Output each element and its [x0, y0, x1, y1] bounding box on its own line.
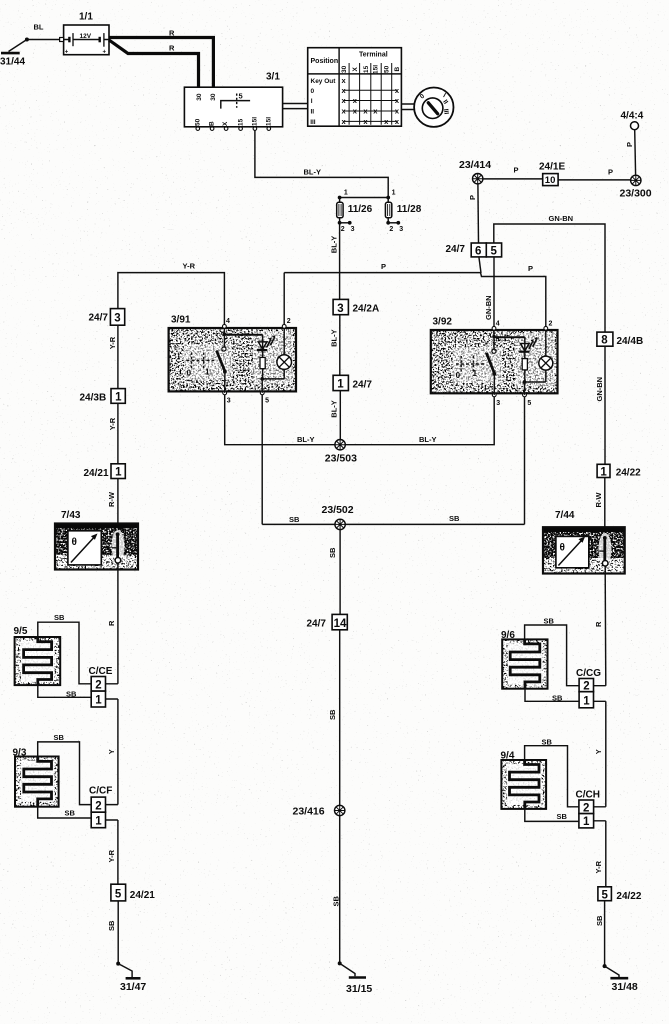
svg-text:4/4:4: 4/4:4: [621, 111, 644, 122]
3/91 pin 5 terminal: [260, 391, 264, 395]
svg-text:SB: SB: [66, 689, 77, 698]
svg-text:X: X: [222, 121, 229, 126]
svg-text:BL-Y: BL-Y: [329, 329, 338, 347]
svg-text:1/1: 1/1: [79, 12, 93, 23]
svg-text:31/15: 31/15: [346, 983, 372, 995]
splice 23/300: [620, 175, 652, 199]
wire Y-R to 24/3B: [108, 325, 118, 388]
svg-text:P: P: [625, 142, 634, 147]
svg-text:+: +: [103, 50, 107, 56]
svg-text:1: 1: [95, 816, 102, 828]
svg-text:R-W: R-W: [107, 491, 116, 507]
svg-text:P: P: [514, 166, 519, 175]
svg-text:θ: θ: [560, 542, 565, 553]
wire 3/91 pin5 to SB line: [261, 395, 263, 525]
svg-text:SB: SB: [107, 920, 116, 931]
svg-text:8: 8: [601, 335, 608, 347]
thermostat 7/44: [543, 510, 625, 574]
wire SB C/CF pin2 to heater 9/3: [38, 733, 91, 805]
wire R lower (battery to ignition 30): [109, 40, 199, 88]
3/92 series resistor: [522, 359, 527, 370]
3/92 pin 2 terminal: [544, 326, 548, 330]
wire SB to ground 31/48: [595, 901, 605, 966]
inline connector 24/1E: [539, 162, 565, 187]
svg-text:3/1: 3/1: [266, 72, 280, 83]
wire 3/92 pin3 to BL-Y line: [345, 397, 494, 445]
svg-text:2: 2: [341, 226, 345, 233]
svg-text:3/92: 3/92: [433, 317, 453, 328]
wire SB heater 9/4 to C/CH pin1: [525, 809, 579, 822]
svg-text:2: 2: [583, 681, 589, 693]
wire SB C/CE pin2 to heater 9/5: [38, 613, 91, 684]
svg-text:24/21: 24/21: [84, 468, 109, 479]
7/43 thermostat switch element: [116, 532, 120, 536]
3/92 pin 5 terminal: [523, 393, 527, 397]
wire BL-Y to splice 23/503: [329, 391, 340, 445]
svg-text:Y-R: Y-R: [594, 860, 603, 873]
svg-text:Key Out: Key Out: [311, 78, 337, 85]
svg-text:14: 14: [334, 618, 347, 630]
heated seat switch 3/91: [169, 314, 296, 404]
splice 23/414: [459, 159, 491, 184]
wire R 7/44 to C/CG pin2: [594, 574, 606, 686]
wire SB C/CG pin2 to heater 9/6: [525, 617, 580, 686]
svg-text:3: 3: [496, 400, 500, 407]
position/terminal table: [308, 48, 402, 127]
svg-text:50: 50: [384, 65, 391, 73]
svg-text:R: R: [169, 29, 175, 38]
svg-text:BL: BL: [34, 23, 44, 32]
svg-text:BL-Y: BL-Y: [329, 236, 338, 254]
3/91 switch contact: [222, 347, 226, 351]
svg-text:5: 5: [602, 889, 609, 901]
svg-text:SB: SB: [544, 617, 555, 626]
svg-text:2: 2: [549, 321, 553, 328]
svg-text:B: B: [209, 121, 216, 126]
svg-text:5: 5: [265, 398, 269, 405]
wire P 3/91 pin2 along to 3/92 pin2: [284, 257, 546, 327]
fuse link bar with node 1 / node 1: [338, 189, 396, 199]
7/44 temperature gauge symbol: [556, 536, 589, 567]
svg-text:BL-Y: BL-Y: [304, 168, 322, 177]
ground 31/48: [603, 964, 638, 993]
svg-text:2: 2: [95, 800, 101, 812]
svg-text:Y-R: Y-R: [107, 849, 116, 862]
svg-text:11/28: 11/28: [397, 204, 422, 215]
linkage table to key: [401, 104, 414, 110]
svg-text:15I: 15I: [252, 117, 259, 126]
wire SB heater 9/5 to C/CE pin1: [38, 685, 91, 698]
3/92 internal wire pin4 node: [493, 330, 495, 336]
svg-text:30: 30: [341, 65, 348, 73]
battery cells 12V: [64, 39, 109, 41]
svg-text:5: 5: [491, 246, 498, 258]
svg-text:θ: θ: [72, 537, 77, 548]
svg-text:3: 3: [227, 398, 231, 405]
svg-text:X: X: [352, 67, 359, 72]
svg-text:+: +: [65, 50, 69, 56]
7/44 thermostat switch element: [603, 536, 607, 540]
wire SB heater 9/6 to C/CG pin1: [525, 689, 579, 703]
svg-text:BL-Y: BL-Y: [419, 435, 437, 444]
svg-text:SB: SB: [449, 514, 460, 523]
svg-text:Terminal: Terminal: [359, 52, 388, 59]
svg-text:Y-R: Y-R: [108, 417, 117, 430]
wire R upper (battery to ignition 30): [109, 29, 213, 89]
svg-text:I: I: [311, 98, 313, 105]
svg-text:Position: Position: [311, 58, 339, 65]
wire Y C/CE pin1 to C/CF pin2: [107, 699, 118, 805]
linkage ignition to table: [283, 104, 308, 109]
splice 23/416: [293, 805, 345, 817]
3/91 indicator LED D1: [262, 335, 264, 342]
wire BL-Y fuse 11/26 down to 24/2A: [329, 223, 339, 300]
svg-text:SB: SB: [54, 613, 65, 622]
3/92 pin 3 terminal: [492, 393, 496, 397]
svg-text:30: 30: [210, 93, 217, 101]
fuse 11/28: [385, 198, 421, 234]
svg-text:6: 6: [475, 246, 481, 258]
ground 31/15: [338, 961, 373, 994]
3/91 series resistor: [260, 357, 265, 368]
3/91 illumination lamp: [277, 355, 292, 370]
svg-text:5: 5: [527, 400, 531, 407]
svg-text:2: 2: [389, 226, 393, 233]
svg-text:P: P: [528, 264, 533, 273]
svg-text:7/44: 7/44: [555, 510, 575, 521]
svg-text:1: 1: [473, 369, 478, 378]
svg-text:P: P: [608, 168, 613, 177]
svg-text:GN-BN: GN-BN: [595, 377, 604, 402]
svg-text:24/7: 24/7: [307, 618, 327, 629]
svg-text:0: 0: [311, 88, 315, 95]
3/92 junction node: [523, 380, 527, 384]
svg-text:15: 15: [363, 65, 370, 73]
svg-text:GN-BN: GN-BN: [484, 295, 493, 320]
fuse 11/26: [337, 198, 373, 234]
svg-text:23/502: 23/502: [322, 504, 354, 516]
wire P 23/414 down to 24/7 pin 6: [468, 184, 479, 243]
svg-text:SB: SB: [65, 809, 76, 818]
svg-text:P: P: [381, 262, 386, 271]
connector 4/4:4: [621, 111, 644, 176]
SB line 3/91 pin5 to 3/92 pin5 through splice 23/502: [262, 514, 524, 524]
7/43 temperature gauge symbol: [68, 531, 101, 565]
svg-text:1: 1: [392, 189, 396, 196]
connector 24/22 pin 5: [598, 887, 642, 902]
svg-text:SB: SB: [595, 915, 604, 926]
svg-text:3: 3: [337, 303, 343, 315]
svg-text:24/7: 24/7: [446, 244, 466, 255]
connector 24/21 pin 5: [111, 884, 155, 901]
svg-text:24/22: 24/22: [616, 891, 641, 902]
connector C/CF: [89, 785, 118, 827]
wire BL-Y ignition to fuses: [255, 130, 388, 197]
svg-text:1: 1: [115, 392, 122, 404]
3/92 pin 4 terminal: [492, 326, 496, 330]
svg-text:7/43: 7/43: [61, 510, 81, 521]
svg-text:0: 0: [187, 369, 192, 378]
svg-text:2: 2: [287, 318, 291, 325]
wire GN-BN 24/7 pin5 to 3/92 pin4: [484, 257, 494, 327]
svg-text:50: 50: [194, 118, 201, 126]
connector 24/22 pin 1: [597, 464, 641, 478]
connector 24/3B pin 1: [80, 389, 126, 404]
connector 24/7 pin 1: [333, 375, 372, 390]
svg-text:C/CE: C/CE: [89, 666, 113, 677]
wire GN-BN 24/4B to 24/22 pin1: [595, 346, 605, 464]
wire BL-Y to 24/7 pin1: [329, 315, 340, 376]
3/92 switch contact: [492, 349, 496, 353]
svg-text:Y-R: Y-R: [183, 261, 196, 270]
svg-text:10: 10: [545, 175, 556, 186]
ground 31/44: [0, 38, 29, 68]
svg-text:Y-R: Y-R: [108, 336, 117, 349]
svg-text:24/1E: 24/1E: [539, 162, 565, 173]
svg-text:24/7: 24/7: [353, 380, 373, 391]
svg-text:SB: SB: [54, 733, 65, 742]
wire GN-BN right column to 24/7 pin 5: [494, 214, 605, 332]
svg-text:Y: Y: [107, 749, 116, 754]
svg-text:2: 2: [583, 802, 589, 814]
svg-text:0: 0: [456, 371, 461, 380]
svg-text:R-W: R-W: [594, 492, 603, 508]
thermostat 7/43: [55, 510, 138, 569]
wire Y C/CG pin1 to C/CH pin2: [594, 701, 606, 807]
svg-text:C/CF: C/CF: [89, 785, 112, 796]
3/91 pin 4 terminal: [223, 325, 227, 329]
svg-text:1: 1: [583, 695, 590, 707]
3/92 switch blade: [486, 353, 494, 374]
wire P splice to 24/1E: [483, 166, 543, 179]
wire Y-R C/CH pin1 to 24/22 pin5: [594, 821, 606, 887]
connector 24/4B pin 8: [597, 332, 643, 347]
heater element 9/5: [14, 626, 61, 685]
wire Y-R C/CF pin1 to 24/21 pin5: [107, 820, 118, 884]
wire SB to splice 23/416: [328, 630, 340, 806]
svg-text:5: 5: [239, 91, 243, 100]
svg-text:11/26: 11/26: [348, 204, 373, 215]
svg-text:B: B: [394, 67, 401, 72]
wire SB to ground 31/15: [332, 816, 341, 964]
wire R-W to 7/43: [107, 479, 118, 535]
svg-text:BL-Y: BL-Y: [297, 435, 315, 444]
wire Y-R to 24/21: [108, 403, 118, 464]
svg-text:24/3B: 24/3B: [80, 392, 107, 403]
3/92 indicator LED D2: [524, 337, 526, 343]
svg-text:1: 1: [344, 189, 348, 196]
connector 24/21 pin 1: [84, 464, 126, 479]
splice 23/503: [297, 435, 437, 465]
svg-text:1: 1: [205, 367, 210, 376]
heater element 9/3: [13, 747, 59, 806]
wire SB to ground 31/47: [107, 901, 118, 964]
svg-text:24/22: 24/22: [616, 468, 641, 479]
svg-text:1: 1: [337, 379, 344, 391]
connector C/CE: [89, 666, 118, 707]
svg-text:24/7: 24/7: [89, 313, 109, 324]
connector 24/7 pin 3: [89, 309, 125, 326]
wire SB C/CH pin2 to heater 9/4: [525, 737, 579, 806]
svg-text:SB: SB: [552, 693, 563, 702]
svg-text:4: 4: [496, 321, 500, 328]
svg-text:23/300: 23/300: [620, 188, 652, 200]
svg-text:Y: Y: [594, 749, 603, 754]
3/92 position marks 0/1: [456, 363, 485, 365]
connector 24/2A pin 3: [333, 299, 379, 315]
svg-text:R: R: [594, 621, 603, 627]
key cylinder: [414, 88, 453, 127]
svg-text:4: 4: [226, 318, 230, 325]
svg-text:24/2A: 24/2A: [353, 304, 380, 315]
svg-text:31/44: 31/44: [0, 57, 25, 68]
svg-text:SB: SB: [328, 709, 337, 720]
svg-text:9/5: 9/5: [14, 626, 28, 637]
svg-text:3: 3: [351, 226, 355, 233]
svg-text:23/503: 23/503: [325, 452, 357, 464]
svg-text:15I: 15I: [266, 117, 273, 126]
svg-text:3: 3: [114, 313, 120, 325]
connector C/CH: [576, 789, 606, 828]
svg-text:SB: SB: [328, 547, 337, 558]
connector 24/7 pin 14: [307, 614, 348, 629]
connector C/CG: [576, 668, 606, 708]
svg-text:II: II: [311, 108, 315, 115]
battery 1/1: [60, 12, 109, 56]
wire R-W to 7/44: [594, 478, 605, 538]
3/91 pin 2 terminal: [282, 325, 286, 329]
svg-text:P: P: [468, 195, 477, 200]
3/91 position marks 0/1: [187, 359, 216, 361]
heated seat switch 3/92: [431, 317, 558, 407]
svg-text:23/416: 23/416: [293, 805, 325, 817]
svg-text:SB: SB: [542, 737, 553, 746]
svg-text:R: R: [107, 620, 116, 626]
svg-text:12V: 12V: [80, 33, 92, 40]
svg-text:24/21: 24/21: [130, 890, 155, 901]
svg-text:BL-Y: BL-Y: [329, 400, 338, 418]
svg-text:3/91: 3/91: [171, 314, 191, 325]
svg-text:23/414: 23/414: [459, 159, 491, 171]
wire BL battery to ground: [27, 23, 60, 40]
3/91 switch blade: [217, 351, 226, 372]
wire Y-R top left to 3/91 pin4: [118, 261, 224, 325]
heater element 9/6: [501, 630, 548, 689]
svg-text:SB: SB: [289, 515, 300, 524]
svg-text:3: 3: [399, 226, 403, 233]
splice 23/502: [322, 504, 354, 530]
svg-text:C/CG: C/CG: [576, 668, 601, 679]
svg-text:1: 1: [115, 467, 122, 479]
svg-text:GN-BN: GN-BN: [549, 214, 574, 223]
wire SB heater 9/3 to C/CF pin1: [38, 807, 91, 818]
svg-text:30: 30: [196, 93, 203, 101]
svg-text:1: 1: [600, 466, 607, 478]
wire 3/91 pin3 to BL-Y line: [225, 395, 335, 445]
svg-text:31/47: 31/47: [120, 981, 146, 993]
3/91 junction node: [260, 377, 264, 381]
svg-text:5: 5: [115, 889, 122, 901]
svg-text:1: 1: [583, 816, 590, 828]
heater element 9/4: [501, 750, 547, 809]
wire R 7/43 to C/CE pin2: [107, 570, 118, 684]
svg-text:1: 1: [95, 695, 102, 707]
svg-text:R: R: [169, 44, 175, 53]
svg-text:SB: SB: [332, 895, 341, 906]
svg-text:31/48: 31/48: [612, 981, 638, 993]
svg-text:C/CH: C/CH: [576, 789, 600, 800]
svg-text:III: III: [310, 119, 316, 126]
svg-text:2: 2: [95, 679, 101, 691]
ground 31/47: [116, 962, 146, 993]
wire P 24/1E to 23/300: [558, 168, 631, 180]
svg-text:15: 15: [238, 118, 245, 126]
ignition switch 3/1: [184, 72, 282, 131]
3/92 illumination lamp: [539, 356, 553, 370]
svg-text:SB: SB: [557, 812, 568, 821]
wire SB splice to 24/7 pin14: [328, 530, 340, 615]
connector 24/7 pins 6,5: [446, 243, 502, 258]
3/91 internal wire pin4 node: [223, 328, 225, 334]
svg-text:24/4B: 24/4B: [617, 336, 644, 347]
3/91 pin 3 terminal: [223, 391, 227, 395]
svg-text:15I: 15I: [373, 65, 380, 74]
wire 3/92 pin5 to SB line: [524, 397, 526, 525]
